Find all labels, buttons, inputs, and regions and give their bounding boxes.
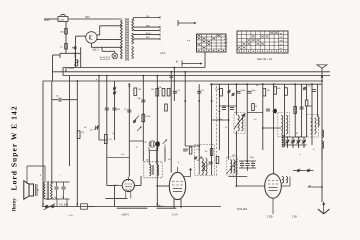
resistor R6 [215, 88, 222, 96]
band switch table S1 [197, 34, 228, 52]
coil L1 pair [238, 115, 243, 131]
capacitor C6 [236, 90, 246, 93]
wire mid h5 [107, 156, 129, 158]
transformer T1 core [126, 18, 128, 61]
svg-text:Horny: Horny [13, 198, 18, 212]
wire tap EM [134, 38, 159, 40]
wire IFT1 sec top [156, 147, 158, 165]
wire vertical V3 x=69.5 [69, 76, 71, 166]
wire mid h3 [212, 119, 229, 121]
wire heater drop [74, 53, 76, 58]
coil L4 pair [202, 158, 207, 175]
rectifier tube V5 AZ1 [86, 32, 99, 52]
switch contact S5a [194, 156, 197, 160]
junction J8 [184, 71, 186, 73]
label lamp [100, 57, 111, 59]
wire vertical V9 x=143.3 [142, 76, 144, 161]
wire corner b1 [65, 68, 67, 73]
bus AVC line [43, 80, 322, 82]
value label T15 [299, 154, 301, 156]
wire tap EF [134, 29, 159, 31]
wire mid link2 [149, 147, 157, 150]
wire osc box left down [211, 161, 213, 175]
coil L8 osc [203, 163, 205, 171]
band switch table S2 [237, 31, 288, 53]
wire speaker top [27, 166, 45, 184]
bus screen [63, 75, 330, 77]
label VVL [59, 204, 68, 206]
junction j41 [198, 100, 200, 102]
junction J14 [156, 203, 158, 205]
svg-text:MW: MW [224, 43, 228, 45]
junction J4 [142, 75, 144, 77]
wire right hook [308, 185, 323, 188]
wire corner b4 [80, 53, 82, 67]
resistor R12 [189, 147, 192, 154]
switch contact S6b [307, 169, 310, 173]
switch contact S6a [297, 169, 300, 173]
resistor R21 [294, 107, 297, 114]
capacitor C7 [247, 90, 256, 93]
svg-text:KW: KW [224, 39, 227, 41]
junction J19 [294, 83, 296, 85]
dial lamp La1 [112, 51, 118, 59]
capacitor C32 [266, 109, 270, 111]
svg-text:100p: 100p [241, 90, 247, 92]
output transformer T2 secondary [51, 182, 53, 199]
junction J18 [246, 83, 248, 85]
value label T17 [84, 127, 87, 129]
resistor R4 [158, 87, 165, 96]
wire vertical V12 x=174.3 [173, 68, 175, 102]
junction J15 [76, 203, 78, 205]
wire vertical V26 x=312 [311, 84, 313, 145]
wire rect right to trafo [97, 39, 122, 41]
resistor R30 500 [60, 29, 67, 35]
wire V2 grid stub [156, 185, 169, 187]
wire pot P2 down [164, 148, 166, 162]
label left of table S1 [187, 40, 191, 42]
wire vertical V6 x=106.8 [106, 76, 108, 186]
wire vertical V2 x=51.8 [51, 81, 53, 182]
wire dropper vertical [65, 22, 67, 54]
junction J16 [42, 203, 44, 205]
svg-text:PH: PH [146, 16, 149, 18]
svg-text:1M: 1M [81, 132, 84, 134]
junction J3 [106, 75, 108, 77]
wire V157 extend [156, 198, 158, 207]
padder trimmer row C13-C16 [285, 137, 307, 148]
bus +anode top [63, 67, 205, 69]
IFT1 secondary coil [157, 165, 159, 176]
wire tube V3 top [273, 173, 275, 175]
mixer tube V3 ECH4 [265, 174, 282, 214]
wire mid link3 [157, 147, 159, 151]
bus chassis bottom [42, 206, 221, 208]
IFT1 core dashes [153, 165, 154, 175]
junction J5 [156, 75, 158, 77]
label Fad [100, 59, 111, 61]
value label T10 [296, 133, 298, 135]
capacitor row C17-C19 [239, 161, 256, 171]
wire V3 grid feed [236, 177, 265, 187]
value label T11 [272, 111, 276, 113]
bus grid line right [210, 83, 322, 85]
svg-text:1M: 1M [267, 90, 270, 92]
coil box mid2 [227, 157, 238, 175]
label 1,4V [172, 214, 178, 217]
value label T3 [256, 85, 259, 87]
coil L2 pair [281, 115, 288, 134]
terminal tap3 [159, 29, 161, 31]
wire vertical V21 x=273.6 [273, 84, 275, 174]
svg-text:B: B [176, 60, 178, 64]
wire tap ECH [134, 34, 159, 36]
label tap3 [146, 33, 151, 35]
value label T12 [254, 119, 257, 121]
value label T8 [196, 149, 201, 151]
capacitor C9 [124, 109, 131, 112]
output transformer T2 core [47, 181, 48, 200]
junction J12 [273, 83, 275, 85]
svg-text:Lord Super W E 142: Lord Super W E 142 [10, 106, 19, 190]
value label T14 [225, 127, 228, 129]
resistor R11 [142, 114, 151, 122]
potentiometer wiper P3 [198, 157, 202, 161]
coil box mid [234, 113, 245, 134]
svg-text:MW: MW [280, 41, 284, 43]
svg-text:5723 AES: 5723 AES [237, 208, 248, 211]
svg-text:KW: KW [280, 37, 283, 39]
wire triode cathode to bus [114, 185, 122, 187]
label seil [257, 57, 272, 61]
junction j34 [198, 145, 200, 147]
transformer T1 primary winding [120, 20, 122, 59]
switch contact S1a [113, 87, 116, 91]
capacitor C33 [300, 107, 304, 109]
wire top h extra [185, 145, 199, 147]
variable core arrow L1 [234, 114, 246, 130]
junction j32 [223, 105, 225, 107]
wire vertical V20 x=262.8 [262, 84, 264, 150]
wire vertical V28 x=322 [321, 76, 323, 202]
svg-text:Σ 98: Σ 98 [292, 217, 297, 219]
junction cathode [74, 52, 76, 54]
triode tube V1 (EBC) [122, 177, 134, 199]
electrolytic C42 blob [274, 109, 277, 114]
potentiometer P4 with arrow [68, 60, 79, 70]
wire mid h4 [263, 127, 281, 129]
resistor R22 [165, 104, 168, 111]
svg-text:1,4 V: 1,4 V [172, 214, 178, 217]
wire tap EB [134, 26, 159, 28]
junction J17 [128, 83, 130, 85]
wire rect cathode down [91, 43, 121, 47]
mains label 220V [44, 19, 50, 22]
wire V1 grid stub [107, 176, 141, 207]
svg-text:0,5M: 0,5M [146, 116, 151, 118]
wire right h106 [307, 105, 312, 107]
label tap5 [146, 37, 149, 39]
resistor R9 [285, 88, 288, 96]
coil L5 antenna [318, 117, 320, 126]
svg-text:1M: 1M [151, 89, 154, 91]
earth ground symbol [318, 202, 330, 214]
wire mid h7 [229, 176, 248, 178]
resistor R15 [151, 88, 159, 96]
resistor R1 [77, 131, 84, 139]
junction j42 [211, 100, 213, 102]
label V3 [267, 216, 273, 219]
value label T20 [112, 133, 115, 135]
value label T9 [250, 157, 254, 159]
wire vertical V13 x=185.2 [184, 72, 186, 146]
resistor R14 [216, 157, 219, 164]
wire vertical V22 x=284.5 [284, 84, 286, 137]
wire V2 anode corner [184, 168, 192, 176]
capacitor C30 [218, 108, 226, 113]
wire lamp link [102, 47, 115, 51]
wire rect top to trafo [97, 26, 122, 35]
label tap1 [146, 16, 149, 18]
wire vertical V18 x=236.4 [235, 84, 237, 115]
value label T0 [128, 86, 132, 88]
switch shaft dashed [216, 86, 218, 176]
value label T6 [178, 162, 180, 164]
wire bottom sub1 [106, 197, 128, 199]
terminal tap2 [159, 26, 161, 28]
svg-text:AZ 1: AZ 1 [92, 48, 100, 52]
svg-text:EM: EM [146, 37, 149, 39]
pilot box Bel [69, 204, 88, 217]
capacitor C24 [197, 90, 205, 93]
svg-text:0,5M: 0,5M [217, 119, 222, 121]
capacitor C41 [137, 98, 145, 102]
wire vertical V27 x=317.6 [317, 84, 319, 117]
junction J1 [76, 80, 78, 82]
capacitor C31 [230, 108, 234, 110]
capacitor C12 [183, 149, 190, 151]
wire bottom heater [60, 47, 81, 58]
label trafo bottom [160, 52, 166, 55]
wire vertical V25 x=306.6 [306, 84, 308, 100]
resistor R7 [263, 88, 270, 96]
label ECH4ES [237, 208, 248, 211]
junction J10 [236, 83, 238, 85]
svg-text:B 8kΩ: B 8kΩ [68, 68, 74, 70]
wire vertical V19 x=247.2 [246, 84, 248, 161]
wire vertical V15 x=211.6 [211, 84, 213, 161]
IF transformer IFT1 box [144, 162, 162, 178]
wire mid h6 [99, 139, 107, 141]
wire mid h2 [247, 112, 263, 114]
label sign [292, 217, 297, 219]
value label T7 [232, 155, 236, 157]
wire table1 to bus [204, 52, 206, 68]
junction J6 [170, 71, 172, 73]
svg-text:0,1A: 0,1A [59, 19, 64, 22]
switch contact S1b [113, 91, 116, 95]
wire mid link1 [129, 140, 143, 142]
coil bumps at V3 right [282, 177, 288, 184]
junction j31 [262, 127, 264, 129]
svg-text:LW: LW [224, 46, 227, 48]
value label T22 [40, 175, 42, 177]
wire vertical V10 x=157.3 [156, 76, 158, 198]
label V2 [157, 205, 164, 208]
output transformer T2 primary [43, 182, 45, 199]
value label T16 [313, 149, 315, 151]
mains switch S7 [44, 204, 56, 211]
capacitor C23 grid [169, 76, 173, 78]
terminal tap5 [159, 38, 161, 40]
wire IFT1 pri top [149, 151, 164, 165]
resistor R20 [252, 104, 259, 111]
capacitor C5 [173, 90, 181, 93]
coil L9 dense [282, 135, 285, 147]
value label T5 [168, 159, 171, 161]
svg-text:+280 V: +280 V [121, 214, 129, 217]
terminal tap1 [159, 16, 161, 18]
junction J2 [98, 75, 100, 77]
wire mid h1 [219, 105, 236, 107]
coil L7 [230, 160, 235, 173]
electrolytic C11 (blob) [156, 141, 160, 147]
wire bottom sub3 [157, 207, 177, 209]
junction j40 [184, 100, 186, 102]
wire vertical coil continue [236, 131, 322, 176]
fuse F1 0,1A [58, 14, 68, 21]
coil L3 pair [311, 118, 316, 134]
title Lord Super W E 142 (model) [10, 106, 19, 190]
wire cap rail top [51, 181, 70, 183]
svg-text:Harz 60 + 42: Harz 60 + 42 [257, 57, 272, 61]
value label T19 [136, 147, 138, 149]
svg-text:LW: LW [280, 44, 283, 46]
wire cap rail bottom [45, 199, 70, 207]
terminal tap4 [159, 34, 161, 36]
dial pointer arrow lower [176, 60, 203, 67]
switch S4 with wiper [133, 116, 139, 124]
svg-text:40Ω: 40Ω [85, 16, 90, 19]
wire vertical V8 x=129.3 [128, 84, 130, 176]
switch contact S3a [303, 87, 306, 91]
transformer T1 secondary winding upper [132, 19, 134, 31]
resistor R8 [274, 87, 282, 95]
wire V2 bottom to bus [174, 199, 181, 209]
svg-text:EBL 1: EBL 1 [157, 205, 164, 208]
label IFT1 [146, 160, 150, 162]
resistor R3 2M [134, 88, 141, 96]
coil L6 antenna lower [322, 130, 324, 149]
wire vertical V24 x=301.6 [301, 84, 303, 137]
wire trafo to bus [69, 166, 71, 182]
capacitor C40 cathode [72, 46, 76, 49]
wire vertical V11 x=171.2 [170, 72, 172, 173]
capacitor C3 [112, 108, 121, 111]
dial pointer arrow upper [178, 20, 197, 26]
label V1 [114, 185, 119, 187]
svg-text:Σ ΩΦ: Σ ΩΦ [267, 216, 273, 219]
wire vertical V7 x=114.5 [114, 81, 116, 140]
wire osc link [198, 158, 200, 175]
resistor R10 [305, 100, 308, 106]
label tap2 [146, 25, 151, 27]
svg-text:Sp: Sp [280, 48, 282, 50]
oscillator assembly dashed box [195, 145, 215, 176]
junction J9 [211, 83, 213, 85]
transformer T1 secondary winding lower [132, 46, 134, 59]
potentiometer wiper P1 [137, 127, 141, 131]
bus B+ main [53, 71, 331, 73]
svg-text:a 6,3: a 6,3 [160, 52, 166, 55]
resistor R31 [60, 44, 67, 50]
wire V3 right link [281, 177, 290, 187]
wire R10 down [306, 106, 308, 137]
capacitor C1 50p with wire [52, 96, 78, 102]
wire vertical V4 x=77.3 [76, 81, 78, 207]
wire vertical V14 x=199.2 [198, 84, 200, 158]
electrolytic C10 50u [143, 141, 156, 147]
wire top mid link [142, 84, 144, 86]
loudspeaker LS [24, 181, 37, 199]
wire vertical V23 x=295.2 [294, 84, 296, 137]
output tube V2 EL11 [169, 167, 185, 200]
wire tap 4V [134, 18, 159, 20]
switch line right [293, 170, 314, 172]
IF coil dashed box right [278, 113, 290, 137]
variable core arrow L7 [227, 161, 238, 175]
transformer T1 secondary winding mid [132, 33, 134, 44]
IF coil dashed box right2 [307, 115, 319, 138]
junction J7 [173, 67, 175, 69]
junction J20 [311, 83, 313, 85]
resistor R13 [205, 149, 213, 156]
switch contact S2b [231, 93, 234, 97]
wire bottom sub2 [117, 207, 148, 209]
junction j30 [228, 119, 230, 121]
wire corner b2 [53, 55, 61, 81]
svg-text:0,1M: 0,1M [215, 89, 220, 91]
svg-text:220V: 220V [44, 19, 50, 22]
junction J11 [262, 83, 264, 85]
wire vertical V5 x=99 [98, 76, 100, 140]
wire corner b3 [62, 68, 64, 76]
electrolytic C22 4u [62, 182, 66, 199]
capacitor C4 [105, 108, 109, 110]
wire speaker bottom [37, 189, 39, 191]
junction j33 [246, 160, 248, 162]
wire vertical V16 x=219.4 [218, 84, 220, 150]
title Horny (brand) [13, 198, 18, 212]
trimmer C2 2p [90, 126, 99, 132]
label +280 [121, 214, 129, 217]
value label T21 [60, 175, 61, 177]
svg-text:Fad 423=5: Fad 423=5 [100, 59, 111, 61]
wire rect anode feed [76, 36, 86, 67]
label 40 ohm [85, 16, 90, 19]
potentiometer P2 volume [163, 140, 167, 149]
electrolytic C21 4u [54, 182, 59, 199]
antenna symbol [317, 65, 327, 78]
wire bottom left link [67, 199, 95, 207]
junction J13 [321, 80, 323, 82]
wire vertical V1 x=43 [42, 81, 44, 207]
resistor R5 [167, 88, 170, 96]
value label T13 [217, 119, 222, 121]
IFT1 primary coil [149, 165, 151, 176]
svg-text:2M: 2M [138, 89, 141, 91]
